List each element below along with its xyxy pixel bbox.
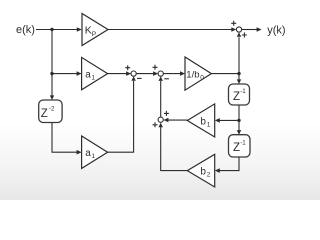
wire summer S4 to output y(k) (242, 29, 258, 31)
svg-text:1: 1 (91, 153, 95, 160)
node D junction (237, 119, 240, 122)
svg-text:b: b (200, 116, 206, 127)
svg-text:-2: -2 (49, 105, 55, 112)
wire gain a1 bottom to summer S1 (108, 81, 134, 152)
wire summer S1 to summer S2 (136, 73, 154, 75)
svg-text:1: 1 (207, 121, 211, 128)
wire gain 1/b0 to node C (211, 73, 239, 75)
gain block a1 (bottom row) (82, 136, 108, 168)
wire gain b1 to summer S3 (168, 119, 188, 121)
summing junction S4 (output) (236, 27, 241, 32)
wire node D to gain b1 (219, 119, 239, 121)
sign + (S3 bottom input) (153, 122, 158, 127)
wire gain KP to output summer S4 (108, 29, 232, 31)
svg-text:b: b (200, 166, 206, 177)
summing junction S1 (131, 71, 136, 76)
junction node A on input line (50, 28, 53, 31)
junction node B on left vertical (50, 72, 53, 75)
wire node C up to summer S4 (238, 37, 240, 73)
svg-text:Z: Z (233, 91, 240, 103)
sign + (S4 bottom input) (242, 33, 247, 38)
node C junction (237, 72, 240, 75)
svg-text:Z: Z (41, 108, 48, 120)
svg-text:Z: Z (233, 142, 240, 154)
sign - (S2 bottom input) (164, 78, 169, 80)
wire gain b2 to summer S3 (161, 127, 188, 171)
svg-text:e(k): e(k) (16, 24, 35, 36)
svg-text:-1: -1 (240, 139, 246, 146)
svg-text:-1: -1 (240, 88, 246, 95)
svg-text:a: a (85, 69, 91, 80)
svg-text:a: a (85, 148, 91, 159)
summing junction S3 (158, 117, 163, 122)
gain block b2 (187, 154, 214, 187)
svg-text:P: P (92, 31, 96, 38)
svg-text:2: 2 (207, 171, 211, 178)
svg-text:1: 1 (91, 74, 95, 81)
gain block 1/b0 (185, 57, 211, 90)
svg-text:y(k): y(k) (267, 24, 285, 36)
sign + (S1 left input) (125, 65, 130, 70)
sign - (S1 bottom input) (137, 77, 142, 79)
sign + (S3 right input) (164, 111, 169, 116)
wire node A down to delay Z-2 (51, 30, 53, 96)
svg-text:1/b: 1/b (186, 69, 199, 80)
gain block KP (82, 14, 108, 46)
delay block Z-1 (second) (229, 135, 251, 157)
wire delay Z-1 first to node D (238, 105, 240, 130)
wire delay Z-2 to gain a1 bottom (52, 123, 77, 153)
delay block Z-1 (first) (229, 84, 250, 105)
wire summer S3 up to summer S2 (160, 81, 162, 117)
gain block b1 (187, 104, 214, 137)
wire node C down to delay Z-1 first (238, 74, 240, 80)
sign + (S2 left input) (153, 65, 158, 70)
delay block Z-2 (39, 100, 62, 123)
wire summer S2 to gain 1/b0 (163, 73, 181, 75)
wire gain a1 to summer S1 (108, 73, 127, 75)
wire node B to gain a1 (52, 73, 77, 75)
wire input e(k) to gain KP (36, 29, 77, 31)
sign + (S4 left input) (231, 21, 236, 26)
svg-text:K: K (85, 25, 92, 37)
wire delay Z-1 second to gain b2 (219, 157, 239, 171)
svg-text:0: 0 (200, 74, 204, 81)
summing junction S2 (158, 71, 163, 76)
gain block a1 (middle row) (82, 57, 108, 89)
